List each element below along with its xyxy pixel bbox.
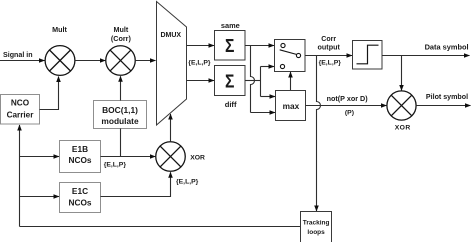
svg-text:{E,L,P}: {E,L,P} xyxy=(104,161,127,168)
svg-text:diff: diff xyxy=(225,100,237,109)
svg-text:NCOs: NCOs xyxy=(68,197,91,207)
wire same branch into max lower input xyxy=(251,112,276,114)
svg-text:NCO: NCO xyxy=(11,99,30,108)
wire E1B branch up into BOC bottom xyxy=(120,129,122,157)
wire diff branch into switch lower input xyxy=(261,66,275,68)
summation box diff xyxy=(215,66,246,96)
svg-text:Pilot symbol: Pilot symbol xyxy=(426,93,468,101)
switch box xyxy=(275,40,306,72)
svg-text:Signal in: Signal in xyxy=(3,51,33,59)
svg-text:E1C: E1C xyxy=(72,186,88,196)
box NCO Carrier xyxy=(1,95,40,125)
wire max to switch control xyxy=(290,72,292,91)
wire XOR up to DMUX xyxy=(170,114,172,142)
svg-text:{E,L,P}: {E,L,P} xyxy=(188,60,211,67)
svg-text:Σ: Σ xyxy=(225,70,234,91)
wire E1C out to XOR bottom xyxy=(101,172,171,196)
wire bottom feedback from Tracking loops xyxy=(20,226,301,228)
wire DMUX to sum same xyxy=(187,45,215,47)
wire max out to XOR pilot xyxy=(306,105,387,107)
xor circle XOR (pilot) xyxy=(387,91,416,120)
svg-text:(P): (P) xyxy=(345,109,354,116)
box BOC(1,1) modulate xyxy=(94,101,147,129)
wire Mult(Corr) to DMUX xyxy=(135,60,155,62)
wire E1B out to XOR xyxy=(101,156,156,158)
wire diff branch vertical xyxy=(260,67,262,97)
xor circle XOR (code) xyxy=(156,142,186,172)
wire corr branch down to tracking loops with hop over max out xyxy=(317,56,321,212)
slicer box (step) xyxy=(353,41,383,70)
switch wiper xyxy=(280,50,297,55)
svg-text:NCOs: NCOs xyxy=(68,155,91,165)
wire same branch down to max with hop over diff xyxy=(251,46,255,113)
svg-text:BOC(1,1): BOC(1,1) xyxy=(102,105,138,115)
svg-text:Mult: Mult xyxy=(114,25,129,34)
svg-text:{E,L,P}: {E,L,P} xyxy=(319,60,342,67)
svg-text:Σ: Σ xyxy=(225,35,234,56)
svg-text:Tracking: Tracking xyxy=(303,220,330,227)
svg-text:not(P xor D): not(P xor D) xyxy=(327,94,369,103)
svg-text:(Corr): (Corr) xyxy=(111,34,132,43)
box Tracking loops xyxy=(301,212,332,242)
wire feedback to E1B xyxy=(20,156,60,158)
wire signal in xyxy=(0,60,45,62)
svg-text:E1B: E1B xyxy=(72,144,88,154)
wire Mult to Mult(Corr) xyxy=(75,60,105,62)
switch contacts xyxy=(280,43,300,68)
summation box same xyxy=(215,31,246,61)
svg-text:Mult: Mult xyxy=(52,25,67,34)
multiplier Mult xyxy=(45,46,75,76)
svg-text:{E,L,P}: {E,L,P} xyxy=(176,178,199,185)
svg-text:modulate: modulate xyxy=(101,116,139,126)
DMUX trapezoid xyxy=(157,2,187,126)
box E1C NCOs xyxy=(60,183,101,213)
multiplier Mult (Corr) xyxy=(106,46,136,76)
svg-text:output: output xyxy=(318,42,341,51)
wire XOR to Pilot symbol xyxy=(416,105,470,107)
slicer step symbol xyxy=(357,45,379,64)
svg-text:XOR: XOR xyxy=(190,155,205,162)
svg-text:Data symbol: Data symbol xyxy=(425,43,469,52)
svg-text:max: max xyxy=(283,101,300,111)
wire DMUX to sum diff xyxy=(187,80,215,82)
svg-text:loops: loops xyxy=(307,229,325,236)
wire feedback vertical to NCO xyxy=(19,125,21,227)
wire BOC to Mult(Corr) xyxy=(120,76,122,100)
wire switch out to slicer (corr output) xyxy=(305,55,352,57)
box E1B NCOs xyxy=(60,141,101,173)
wire NCO to Mult xyxy=(40,77,59,110)
svg-text:XOR: XOR xyxy=(395,124,411,131)
wire diff branch into max upper input xyxy=(261,96,276,98)
svg-text:Carrier: Carrier xyxy=(7,111,35,120)
box max xyxy=(276,91,306,121)
wire diff out xyxy=(245,80,261,82)
svg-text:DMUX: DMUX xyxy=(160,32,181,39)
wire slicer to Data symbol xyxy=(382,55,470,57)
wire branch down to XOR pilot xyxy=(401,56,403,91)
svg-text:same: same xyxy=(221,21,240,30)
wire same to switch xyxy=(245,45,274,47)
wire feedback to E1C xyxy=(20,196,60,198)
